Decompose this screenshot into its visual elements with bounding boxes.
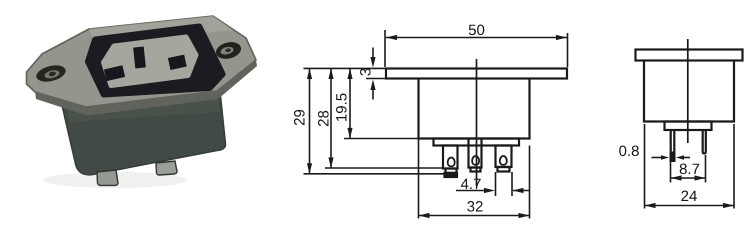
dim text 28 <box>318 111 329 126</box>
left ear hole (photo) <box>35 63 68 85</box>
dim text 50 <box>469 25 485 36</box>
arrowheads dim 19.5 <box>347 68 352 79</box>
dim 8.7 lines <box>670 162 672 183</box>
arrowheads dim 28 <box>328 68 333 79</box>
front pin 3 tab <box>498 167 510 172</box>
flange side thickness (photo) <box>35 60 257 116</box>
arrowheads dim 50 <box>386 35 397 40</box>
dim text 0.8 <box>619 146 639 157</box>
body tab 2 (photo) <box>156 161 177 175</box>
body tab 1 (photo) <box>97 170 118 185</box>
side flange <box>636 50 743 61</box>
arrowheads dim 8.7 <box>671 175 682 180</box>
front pin 3 <box>496 146 512 168</box>
arrowheads dim 24 <box>645 203 656 208</box>
connector body (photo) <box>61 91 226 175</box>
side center line <box>687 39 689 143</box>
pin 2 hole <box>472 156 479 165</box>
side body <box>644 61 734 122</box>
dim 29 line <box>309 68 311 173</box>
side pin A <box>671 130 675 152</box>
arrowheads dim 3 <box>370 57 375 68</box>
side step <box>665 122 712 131</box>
socket recess black ring (photo) <box>89 27 223 94</box>
dim 19.5 line <box>349 68 351 138</box>
arrowheads dim 29 <box>307 68 312 79</box>
dim 50 line <box>386 37 567 39</box>
flange plate (photo) <box>27 16 257 107</box>
front pin 2 <box>469 139 482 168</box>
dim text 3 <box>360 69 371 76</box>
dim 50 extension lines <box>384 30 386 67</box>
dim text 8.7 <box>680 164 700 175</box>
slot left (photo) <box>104 65 125 81</box>
arrowheads dim 4.7 <box>484 188 495 193</box>
dim text 24 <box>681 191 697 202</box>
dim 32 lines <box>418 139 420 219</box>
arrowheads dim 32 <box>419 213 430 218</box>
dim text 4.7 <box>461 179 481 189</box>
front step <box>434 139 520 146</box>
pin 1 hole <box>448 158 455 167</box>
front pin 2 tab <box>471 168 481 172</box>
soft shadow under connector <box>43 172 187 188</box>
flange highlight top <box>89 16 233 44</box>
front body <box>419 79 530 139</box>
arrowheads dim 0.8 <box>661 155 669 160</box>
dim text 32 <box>467 201 482 212</box>
dim 3 extension lines <box>304 67 387 69</box>
slot right (photo) <box>168 55 187 70</box>
side pin B <box>703 130 706 154</box>
dim 24 lines <box>644 124 646 209</box>
pin A measure blob <box>670 152 676 163</box>
dim text 29 <box>294 110 305 125</box>
socket inner gray face (photo) <box>104 37 197 86</box>
slot middle (photo) <box>133 47 146 69</box>
pin 3 hole <box>500 156 507 165</box>
body sheen <box>66 94 220 122</box>
front pin 1 tab <box>446 169 457 177</box>
right ear hole (photo) <box>214 40 243 62</box>
dim 0.8 stems <box>652 157 663 159</box>
dim 4.7 lines <box>495 172 497 196</box>
dim 3 arrow stems <box>372 48 374 59</box>
front pin 1 <box>443 146 458 169</box>
front center line <box>476 59 478 186</box>
dim 28 line <box>330 68 332 168</box>
front flange <box>386 69 567 79</box>
dim text 19.5 <box>336 94 347 122</box>
